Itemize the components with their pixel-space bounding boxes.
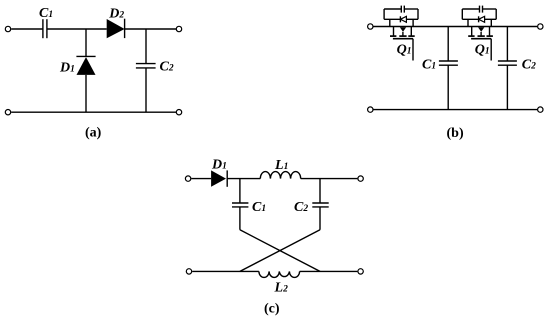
terminal bottom-right (a) (176, 110, 181, 115)
svg-text:Q1: Q1 (397, 42, 412, 57)
terminal top-right (b) (538, 24, 543, 29)
antiparallel diode unit 1 (400, 16, 406, 22)
stub left rect-to-rail unit 2 (467, 19, 469, 26)
snubber capacitor unit 1 (401, 6, 404, 13)
diode D1 (c) (211, 170, 227, 186)
wire bottom rail right segment (c) (300, 270, 358, 272)
terminal top-left (b) (368, 24, 373, 29)
svg-text:Q1: Q1 (475, 42, 490, 57)
svg-text:C1: C1 (39, 6, 53, 21)
terminal bottom-left (c) (186, 269, 191, 274)
wire C2 branch upper (a) (145, 29, 147, 64)
wire top rail middle segment (c) (227, 178, 260, 180)
svg-text:D1: D1 (211, 158, 227, 173)
capacitor C2 (b) (498, 61, 517, 65)
svg-text:C2: C2 (160, 60, 174, 75)
svg-text:D2: D2 (108, 6, 124, 21)
terminal top-right (c) (358, 176, 363, 181)
wire C2 branch lower vertical (c) (319, 207, 321, 230)
wire bottom rail left segment (c) (192, 270, 259, 272)
wire top rail middle segment (a) (47, 28, 107, 30)
terminal top-left (c) (185, 176, 190, 181)
terminal bottom-left (a) (5, 110, 10, 115)
wire bottom rail (b) (374, 109, 538, 111)
capacitor C1 (b) (439, 61, 458, 65)
wire C2 branch lower (a) (145, 68, 147, 112)
wire C1 branch lower vertical (c) (239, 207, 241, 230)
node A junction (a) (85, 29, 87, 56)
capacitor C1 (43, 19, 47, 38)
switch unit 1: snubber box (384, 9, 418, 19)
stub right rect-to-rail unit 2 (490, 19, 492, 26)
terminal bottom-right (b) (538, 107, 543, 112)
svg-text:C1: C1 (422, 57, 436, 72)
svg-text:L1: L1 (274, 158, 288, 173)
wire C1 branch upper (b) (447, 27, 449, 62)
stub right rect-to-rail unit 1 (412, 19, 414, 26)
svg-text:C2: C2 (294, 200, 308, 215)
inductor L2 (259, 271, 300, 277)
terminal top-left (a) (5, 26, 10, 31)
terminal bottom-right (c) (358, 269, 363, 274)
wire C2 branch lower (b) (506, 65, 508, 109)
wire top rail (b) (374, 26, 538, 28)
wire crossing diagonal left-to-right (c) (240, 230, 320, 272)
wire D1 branch lower (a) (85, 75, 87, 112)
diode D1 (76, 56, 95, 75)
transistor Q1 (second) (468, 27, 493, 61)
svg-text:D1: D1 (59, 61, 75, 76)
wire crossing diagonal right-to-left (c) (240, 230, 320, 272)
wire C1 branch lower (b) (447, 65, 449, 109)
transistor Q1 (first) (390, 27, 415, 61)
svg-text:C1: C1 (252, 200, 266, 215)
svg-text:(b): (b) (447, 126, 464, 141)
wire C2 branch upper (c) (319, 179, 321, 203)
switch unit 2: snubber box (462, 9, 496, 19)
inductor L1 (260, 172, 300, 179)
capacitor C1 (c) (232, 203, 248, 207)
diode D2 (107, 19, 125, 39)
svg-text:(c): (c) (264, 302, 280, 317)
stub left rect-to-rail unit 1 (389, 19, 391, 26)
wire C1 branch upper (c) (239, 179, 241, 203)
wire top rail left segment (a) (11, 28, 43, 30)
wire C2 branch upper (b) (506, 27, 508, 62)
snubber capacitor unit 2 (480, 6, 483, 13)
wire bottom rail (a) (11, 111, 176, 113)
svg-text:(a): (a) (85, 126, 102, 141)
wire top rail right segment (c) (301, 178, 358, 180)
terminal top-right (a) (176, 26, 181, 31)
capacitor C2 (136, 64, 156, 68)
wire top rail right segment (a) (125, 28, 177, 30)
antiparallel diode unit 2 (479, 16, 485, 22)
wire top rail left segment (c) (191, 178, 211, 180)
svg-text:C2: C2 (522, 57, 536, 72)
svg-text:L2: L2 (274, 281, 289, 296)
capacitor C2 (c) (312, 203, 328, 207)
terminal bottom-left (b) (368, 107, 373, 112)
